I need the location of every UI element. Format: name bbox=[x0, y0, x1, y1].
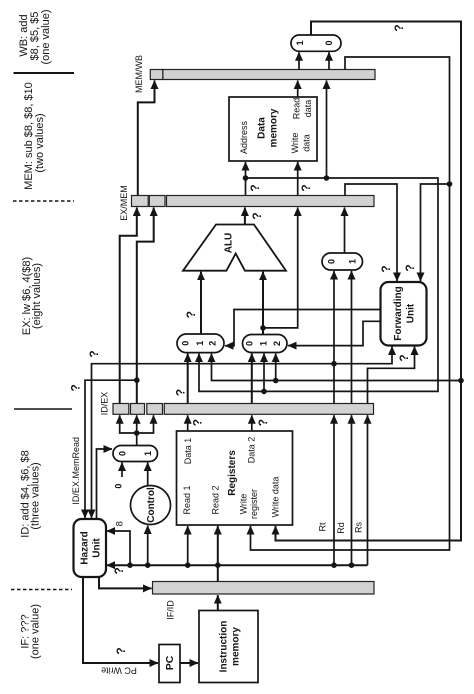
svg-text:Address: Address bbox=[239, 120, 249, 154]
divider MEM/WB solid bbox=[14, 72, 75, 74]
svg-text:Read 2: Read 2 bbox=[210, 485, 220, 514]
svg-text:?: ? bbox=[174, 389, 188, 396]
mux A ALU operand (0/1/2) bbox=[177, 334, 224, 353]
svg-text:MEM/WB: MEM/WB bbox=[134, 55, 144, 93]
svg-text:Rs: Rs bbox=[354, 522, 364, 533]
svg-text:?: ? bbox=[397, 354, 411, 361]
svg-text:Data: Data bbox=[257, 117, 268, 139]
wire MEM/WB ALU result to mux W bbox=[328, 52, 330, 69]
stage label ID bbox=[19, 450, 41, 537]
svg-text:?: ? bbox=[392, 24, 406, 31]
wire Rs field to ID/EX bbox=[354, 415, 368, 565]
svg-text:Unit: Unit bbox=[92, 538, 103, 558]
svg-text:Rd: Rd bbox=[336, 522, 346, 534]
wire ALU result to MEM/WB bbox=[324, 81, 330, 181]
wire ID/EX.RegisterRt rail to hazard unit bbox=[87, 350, 337, 518]
svg-text:(two values): (two values) bbox=[34, 113, 46, 172]
stage label IF bbox=[19, 604, 41, 659]
Forwarding unit box bbox=[381, 282, 427, 346]
svg-text:Unit: Unit bbox=[406, 303, 417, 323]
wire EX/MEM ALU result rail forward to mux inputs 1 bbox=[174, 175, 438, 396]
wire instruction bus from IF/ID bbox=[107, 526, 368, 582]
wire Rt rail to forwarding unit bbox=[334, 347, 392, 364]
wire opcode to control bbox=[145, 526, 151, 569]
svg-text:PC: PC bbox=[164, 655, 176, 670]
svg-text:Read 1: Read 1 bbox=[182, 485, 192, 514]
wire IF/ID.RegisterRt to hazard unit, value 8 bbox=[107, 521, 133, 568]
svg-text:0: 0 bbox=[181, 341, 191, 346]
svg-text:memory: memory bbox=[231, 627, 242, 666]
wire ID mux output fan to ID/EX control boxes bbox=[120, 415, 154, 445]
svg-text:Registers: Registers bbox=[227, 450, 238, 496]
wire instruction memory to IF/ID bbox=[217, 595, 219, 610]
wire Rd pass to mux M input 1 bbox=[351, 271, 353, 404]
svg-text:1: 1 bbox=[195, 341, 205, 346]
svg-text:1: 1 bbox=[348, 259, 358, 264]
svg-text:Data 2: Data 2 bbox=[247, 437, 257, 464]
svg-text:(three values): (three values) bbox=[29, 462, 41, 529]
svg-text:1: 1 bbox=[295, 40, 305, 45]
mux B ALU operand (0/1/2) bbox=[243, 335, 288, 353]
svg-text:Hazard: Hazard bbox=[80, 531, 91, 564]
pipeline register EX/MEM with control boxes bbox=[119, 185, 374, 221]
wire Rs to forwarding unit bbox=[368, 347, 415, 404]
svg-text:memory: memory bbox=[269, 108, 280, 147]
svg-text:0: 0 bbox=[118, 451, 128, 456]
svg-text:Data 1: Data 1 bbox=[183, 438, 193, 465]
svg-text:?: ? bbox=[191, 419, 205, 426]
svg-text:?: ? bbox=[256, 419, 270, 426]
svg-text:1: 1 bbox=[259, 341, 269, 346]
wire PC write from hazard unit bbox=[83, 578, 158, 676]
wire registers data 2 to ID/EX bbox=[252, 415, 270, 431]
svg-text:?: ? bbox=[299, 184, 313, 191]
svg-text:0: 0 bbox=[324, 40, 334, 45]
svg-text:EX/MEM: EX/MEM bbox=[119, 185, 129, 221]
wire IF/ID write from hazard unit bbox=[99, 578, 152, 589]
wire Rd field to ID/EX bbox=[336, 415, 354, 568]
wire MEM/WB read data to mux W bbox=[298, 52, 300, 69]
svg-text:?: ? bbox=[68, 384, 82, 391]
wire forwardB select to mux B bbox=[288, 321, 381, 345]
wire ALU result to data memory address bbox=[246, 162, 263, 196]
divider ID/EX solid bbox=[14, 408, 72, 410]
wire write data to data memory bbox=[298, 162, 314, 196]
wire mux W writeback data loop bbox=[276, 22, 462, 541]
svg-text:Read: Read bbox=[292, 98, 302, 120]
svg-text:Forwarding: Forwarding bbox=[393, 286, 404, 340]
wire writeback rail to mux inputs 2 bbox=[212, 354, 464, 384]
wire EX/MEM.RegisterRd to forwarding unit bbox=[345, 184, 397, 281]
Instruction memory box bbox=[199, 611, 258, 683]
svg-text:?: ? bbox=[250, 212, 264, 219]
divider IF/ID dashed bbox=[11, 589, 72, 591]
svg-text:?: ? bbox=[248, 184, 262, 191]
svg-text:2: 2 bbox=[208, 341, 218, 346]
mux W writeback (1/0) bbox=[291, 35, 341, 51]
wire WB control pass ID/EX to EX/MEM bbox=[120, 208, 137, 404]
wire control to mux input 1 bbox=[147, 463, 149, 486]
divider EX/MEM dashed bbox=[13, 200, 74, 202]
svg-text:Control: Control bbox=[146, 487, 157, 523]
mux ID stall (0/1) bbox=[113, 446, 158, 462]
wire MEM/WB.RegisterRd loop to write register and forwarding unit bbox=[251, 57, 453, 550]
Data memory box bbox=[229, 97, 317, 161]
pipeline register MEM/WB with control box bbox=[134, 55, 375, 93]
Hazard unit box bbox=[74, 519, 107, 577]
svg-text:data: data bbox=[302, 134, 312, 152]
Registers box bbox=[177, 431, 293, 525]
svg-text:?: ? bbox=[112, 567, 126, 574]
svg-text:ALU: ALU bbox=[224, 233, 235, 254]
svg-text:(one value): (one value) bbox=[40, 9, 52, 64]
svg-text:1: 1 bbox=[143, 451, 153, 456]
ALU shape bbox=[183, 225, 286, 271]
wire mux B output to ALU with write-data branch bbox=[260, 208, 298, 335]
wire data 1 pass to mux A input 0 bbox=[187, 354, 189, 404]
Control oval bbox=[131, 486, 171, 525]
wire hazard stall select to ID mux bbox=[97, 449, 113, 519]
svg-text:Rt: Rt bbox=[318, 522, 328, 531]
wire PC to instruction memory bbox=[180, 662, 198, 664]
svg-text:(one value): (one value) bbox=[29, 604, 41, 659]
wire ID/EX.MemRead to hazard unit bbox=[68, 377, 139, 518]
svg-text:data: data bbox=[303, 100, 313, 118]
svg-text:Write: Write bbox=[290, 133, 300, 154]
svg-text:2: 2 bbox=[272, 341, 282, 346]
svg-text:0: 0 bbox=[114, 484, 124, 489]
pipeline register ID/EX with control boxes bbox=[100, 392, 374, 416]
wire mux M output to EX/MEM bbox=[344, 208, 346, 254]
wire control pass EX/MEM to MEM/WB bbox=[138, 81, 155, 196]
svg-text:8: 8 bbox=[115, 521, 126, 526]
PC box bbox=[159, 645, 180, 683]
wire read register 1 bbox=[185, 526, 191, 568]
svg-text:?: ? bbox=[184, 311, 198, 318]
svg-text:Instruction: Instruction bbox=[219, 621, 230, 673]
wire ALU result to EX/MEM bbox=[245, 208, 264, 225]
svg-text:ID/EX.MemRead: ID/EX.MemRead bbox=[71, 437, 81, 505]
svg-text:Write data: Write data bbox=[270, 477, 280, 518]
stage label MEM bbox=[23, 82, 46, 190]
svg-text:Write: Write bbox=[239, 494, 249, 515]
wire constant 0 to mux input 0 bbox=[114, 463, 124, 489]
wire Rt field to ID/EX bbox=[318, 415, 337, 568]
wire mux A output to ALU bbox=[184, 272, 201, 334]
wire read data to MEM/WB bbox=[297, 81, 299, 98]
stage label EX bbox=[21, 257, 43, 335]
mux M dest register (0/1) bbox=[322, 253, 363, 270]
svg-text:PC Write: PC Write bbox=[101, 665, 137, 675]
pipeline register IF/ID bbox=[153, 582, 375, 620]
wire registers data 1 to ID/EX bbox=[188, 415, 205, 431]
wire data 2 pass to mux B input 0 bbox=[251, 354, 253, 404]
svg-text:?: ? bbox=[114, 647, 128, 654]
svg-text:ID/EX: ID/EX bbox=[100, 392, 110, 416]
stage label WB bbox=[18, 9, 52, 64]
wire forwardA select to mux A bbox=[225, 310, 381, 346]
svg-text:IF/ID: IF/ID bbox=[166, 600, 176, 620]
svg-text:(eight values): (eight values) bbox=[31, 263, 43, 329]
svg-text:?: ? bbox=[403, 264, 417, 271]
svg-text:register: register bbox=[249, 489, 259, 519]
svg-text:?: ? bbox=[379, 265, 393, 272]
svg-text:?: ? bbox=[87, 350, 101, 357]
svg-text:0: 0 bbox=[327, 259, 337, 264]
svg-text:0: 0 bbox=[245, 341, 255, 346]
wire Rt pass to mux M input 0 bbox=[333, 271, 335, 404]
wire M control pass ID/EX to EX/MEM bbox=[137, 208, 154, 404]
